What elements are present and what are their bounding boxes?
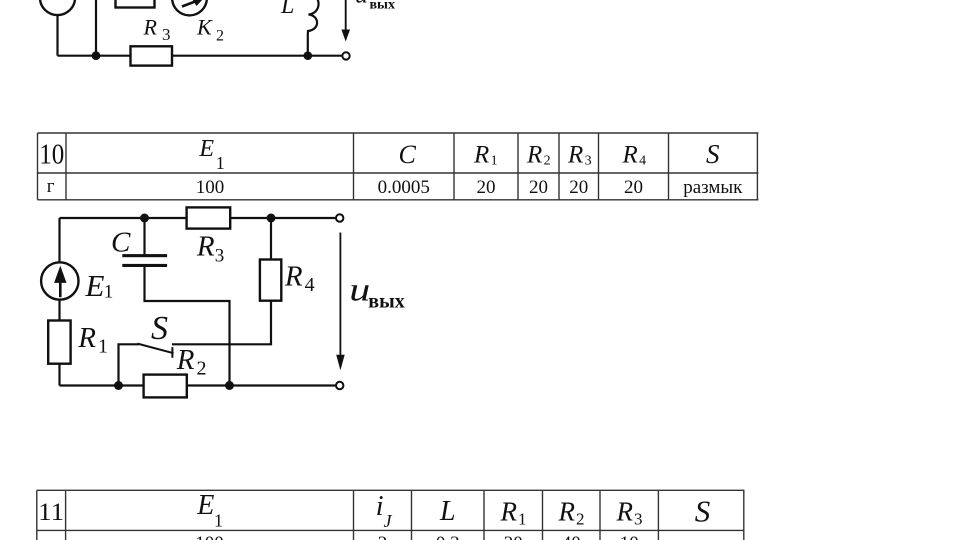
source J2 (circle with arrow, cut off at top) — [172, 0, 207, 15]
svg-text:1: 1 — [214, 511, 223, 531]
svg-text:1: 1 — [104, 282, 114, 303]
node: top-left junction dot (capacitor tap) — [140, 214, 149, 223]
wire: capacitor bottom lead, right run and drop to bottom bus — [145, 267, 230, 386]
node: bottom-left junction dot (switch/R2) — [114, 381, 123, 390]
svg-text:S: S — [706, 139, 720, 169]
source E (circle, cut off at top) — [40, 0, 75, 15]
wire: vertical branch to node — [95, 0, 97, 56]
svg-text:0.2: 0.2 — [436, 533, 460, 540]
table11 horizontal mid — [37, 529, 745, 531]
label R4 — [284, 261, 315, 297]
terminal: open output — [342, 52, 349, 59]
svg-text:1: 1 — [518, 509, 527, 528]
svg-text:R: R — [473, 142, 489, 169]
svg-text:1: 1 — [216, 153, 225, 173]
svg-text:100: 100 — [195, 533, 224, 540]
label K2 — [196, 15, 224, 45]
label u_vyh — [349, 272, 404, 312]
svg-text:4: 4 — [639, 154, 646, 169]
svg-text:R: R — [616, 497, 634, 527]
svg-text:20: 20 — [477, 177, 496, 198]
table10 horizontal top — [38, 132, 759, 134]
svg-text:20: 20 — [624, 177, 643, 198]
svg-text:2: 2 — [197, 358, 207, 380]
svg-text:размык: размык — [683, 177, 743, 198]
wire: R4 top lead — [270, 218, 272, 260]
terminal: upper output — [336, 214, 343, 221]
switch S contact tick — [171, 347, 173, 358]
svg-text:вых: вых — [370, 0, 396, 12]
resistor R1 — [48, 321, 70, 364]
wire: bottom bus of top circuit — [58, 55, 343, 57]
svg-text:40: 40 — [562, 533, 581, 540]
svg-text:2: 2 — [378, 533, 388, 540]
svg-text:3: 3 — [215, 246, 225, 267]
label E1 — [85, 268, 114, 303]
wire: capacitor top lead — [143, 218, 145, 255]
table11 data row (cut off at page bottom) — [195, 533, 638, 540]
table10 data row — [47, 176, 743, 198]
table11 horizontal top — [37, 489, 745, 491]
svg-text:2: 2 — [216, 28, 224, 45]
table11 verticals — [36, 490, 38, 540]
svg-text:S: S — [151, 310, 168, 347]
svg-text:K: K — [196, 15, 213, 40]
svg-text:R: R — [500, 497, 518, 527]
wire: R4 bottom lead and run to switch — [172, 301, 271, 345]
svg-text:R: R — [77, 322, 96, 354]
svg-text:L: L — [439, 496, 456, 527]
node: junction dot on bottom bus — [92, 51, 101, 60]
arrow u_vyh — [336, 233, 345, 371]
svg-text:E: E — [196, 490, 214, 521]
label R1 — [77, 322, 108, 358]
svg-text:вых: вых — [368, 291, 404, 313]
svg-text:R: R — [143, 15, 158, 40]
resistor R2 — [144, 375, 187, 398]
table10 horizontal mid — [38, 172, 759, 174]
svg-text:E: E — [85, 268, 105, 303]
svg-text:1: 1 — [491, 154, 498, 169]
terminal: lower output — [336, 382, 343, 389]
resistor R3 — [187, 207, 231, 228]
resistor R4 — [260, 260, 281, 301]
resistor R3 (top circuit) — [131, 46, 173, 65]
svg-text:11: 11 — [38, 499, 64, 526]
svg-text:J: J — [384, 511, 393, 531]
resistor (cut off at top) — [116, 0, 155, 8]
svg-text:u: u — [349, 272, 370, 308]
svg-text:R: R — [526, 142, 542, 169]
svg-text:L: L — [280, 0, 294, 19]
svg-text:R: R — [622, 142, 638, 169]
svg-text:3: 3 — [585, 154, 592, 169]
svg-text:100: 100 — [196, 177, 225, 198]
svg-text:S: S — [695, 494, 711, 529]
svg-text:3: 3 — [162, 25, 171, 44]
table11 header row — [38, 490, 710, 531]
svg-text:3: 3 — [634, 509, 643, 528]
wire: bottom bus — [60, 384, 340, 386]
svg-text:г: г — [47, 176, 55, 197]
svg-text:i: i — [376, 491, 384, 522]
svg-text:0.0005: 0.0005 — [378, 177, 430, 198]
wire: switch left post — [119, 344, 140, 385]
node: bottom-right junction dot (cap branch/R2) — [225, 381, 234, 390]
label R2 — [176, 344, 207, 380]
label R3 (top circuit) — [143, 15, 171, 44]
node: junction dot under inductor — [304, 51, 313, 60]
table10 horizontal bottom — [38, 199, 759, 201]
source E1 (circle with up arrow) — [41, 262, 78, 299]
node: top-right junction dot (R4 tap) — [267, 214, 276, 223]
svg-text:u: u — [355, 0, 368, 9]
wire: left vertical branch — [58, 218, 60, 386]
svg-text:10: 10 — [620, 533, 639, 540]
svg-text:2: 2 — [544, 154, 551, 169]
svg-text:20: 20 — [529, 177, 548, 198]
svg-text:E: E — [198, 136, 214, 162]
table10 header row — [39, 136, 720, 173]
svg-text:20: 20 — [569, 177, 588, 198]
arrow u_out (top circuit) — [341, 0, 350, 42]
svg-text:C: C — [399, 140, 417, 169]
svg-text:R: R — [176, 344, 195, 376]
label R3 — [196, 231, 224, 267]
svg-text:C: C — [111, 226, 131, 258]
svg-text:10: 10 — [39, 139, 64, 170]
svg-text:R: R — [284, 261, 303, 293]
inductor L (cut off at top) — [308, 0, 319, 56]
svg-text:4: 4 — [305, 274, 315, 296]
wire: left vertical lead from source — [56, 12, 58, 56]
svg-text:1: 1 — [98, 335, 108, 357]
svg-text:R: R — [558, 497, 576, 527]
switch S blade — [138, 344, 174, 354]
wire: top bus — [60, 217, 340, 219]
svg-text:20: 20 — [504, 533, 523, 540]
label u_vyh (top circuit, cut) — [355, 0, 395, 12]
svg-text:2: 2 — [576, 509, 585, 528]
capacitor C plates — [122, 254, 167, 267]
svg-text:R: R — [196, 231, 215, 263]
table10 verticals — [37, 133, 39, 200]
svg-text:R: R — [567, 142, 583, 169]
